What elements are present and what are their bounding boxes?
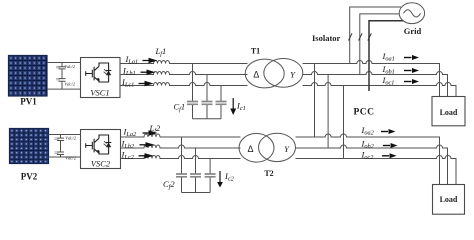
isolator switch blade c bbox=[368, 33, 372, 40]
svg-text:Ioa2: Ioa2 bbox=[361, 125, 375, 137]
svg-text:Ioa1: Ioa1 bbox=[382, 51, 395, 63]
wire phase c2 bbox=[296, 156, 457, 185]
wire DC link 1 top bbox=[47, 62, 81, 64]
label ILc1 bbox=[121, 77, 154, 89]
grid source bbox=[399, 3, 424, 24]
svg-text:Ioc1: Ioc1 bbox=[382, 75, 395, 87]
isolator switch blade b bbox=[359, 33, 363, 40]
wire phase c1 (VSC1 to T1) with inductor bbox=[120, 83, 248, 86]
cap value smudge upper2 bbox=[55, 138, 59, 139]
svg-text:Vdc/2: Vdc/2 bbox=[65, 136, 76, 141]
filter capacitor bank Cf1 bbox=[187, 64, 227, 119]
svg-text:ILa2: ILa2 bbox=[123, 127, 137, 139]
label ILb1 bbox=[122, 66, 156, 78]
svg-text:Lf1: Lf1 bbox=[155, 46, 167, 58]
converter VSC2 bbox=[81, 130, 121, 169]
transformer T1 bbox=[245, 59, 303, 88]
svg-text:PCC: PCC bbox=[354, 108, 375, 118]
cap value smudge upper1 bbox=[56, 67, 60, 68]
svg-text:Ic2: Ic2 bbox=[224, 171, 235, 183]
isolator riser phase a bbox=[350, 7, 402, 64]
svg-text:Load: Load bbox=[440, 108, 458, 117]
PCC bus phase b (vertical) bbox=[327, 75, 329, 149]
svg-text:VSC2: VSC2 bbox=[91, 158, 111, 168]
label ILa2 bbox=[123, 127, 158, 139]
cap value smudge lower2 bbox=[55, 152, 59, 153]
label ILb2 bbox=[121, 139, 155, 151]
svg-text:Vdc/2: Vdc/2 bbox=[65, 155, 76, 160]
label Ioc1 bbox=[382, 75, 420, 87]
svg-text:PV2: PV2 bbox=[21, 172, 38, 182]
label Iob1 bbox=[382, 64, 420, 76]
svg-text:ILc2: ILc2 bbox=[121, 150, 135, 162]
svg-text:ILa1: ILa1 bbox=[125, 54, 139, 66]
svg-text:T2: T2 bbox=[264, 169, 273, 178]
wire phase c1 bbox=[303, 83, 457, 97]
svg-text:PV1: PV1 bbox=[20, 97, 37, 107]
svg-text:Isolator: Isolator bbox=[312, 33, 341, 43]
cap value smudge lower1 bbox=[56, 79, 60, 80]
isolator riser phase c bbox=[369, 21, 404, 86]
PV array PV1 bbox=[9, 56, 48, 97]
svg-text:ILb1: ILb1 bbox=[122, 66, 136, 78]
label ILc2 bbox=[121, 150, 154, 162]
svg-text:Grid: Grid bbox=[404, 26, 422, 36]
svg-text:Iob1: Iob1 bbox=[382, 64, 395, 76]
PCC bus phase c (vertical) bbox=[343, 86, 345, 159]
svg-text:Cf1: Cf1 bbox=[174, 102, 186, 114]
current arrow Ic1 bbox=[230, 98, 236, 115]
svg-text:Δ: Δ bbox=[247, 144, 253, 154]
filter capacitor bank Cf2 bbox=[176, 137, 216, 193]
label ILa1 bbox=[125, 54, 158, 66]
capacitor Vdc/2 upper (DC link 2) bbox=[57, 135, 64, 153]
wire phase b1 (VSC1 to T1) with inductor bbox=[120, 72, 248, 75]
capacitor Vdc/2 lower (DC link 1) bbox=[59, 79, 66, 90]
svg-text:Vdc/2: Vdc/2 bbox=[64, 64, 75, 69]
svg-text:Lf2: Lf2 bbox=[149, 123, 161, 135]
isolator switch blade a bbox=[349, 33, 353, 40]
wire DC link 1 bottom bbox=[47, 88, 81, 90]
svg-text:Ioc2: Ioc2 bbox=[361, 150, 375, 162]
wire phase a2 (VSC2 to T2) with inductor bbox=[121, 134, 241, 137]
wire phase b1 bbox=[303, 72, 448, 97]
svg-text:Load: Load bbox=[440, 195, 458, 204]
wire phase c2 (VSC2 to T2) with inductor bbox=[121, 156, 241, 159]
junction stub below phase c1 bbox=[368, 86, 370, 92]
wire DC link 2 bottom bbox=[49, 156, 81, 158]
svg-text:VSC1: VSC1 bbox=[90, 87, 109, 97]
PV array PV2 bbox=[10, 129, 49, 164]
svg-text:ILb2: ILb2 bbox=[121, 139, 135, 151]
load box Load1 bbox=[432, 97, 465, 126]
load box Load2 bbox=[433, 185, 465, 215]
capacitor Vdc/2 lower (DC link 2) bbox=[57, 152, 64, 157]
svg-text:Cf2: Cf2 bbox=[163, 179, 175, 191]
label Iob2 bbox=[361, 138, 398, 150]
svg-text:Iob2: Iob2 bbox=[361, 138, 375, 150]
wire phase a2 (T2 to Load2) bbox=[296, 134, 440, 185]
svg-text:ILc1: ILc1 bbox=[121, 77, 134, 89]
svg-text:T1: T1 bbox=[251, 47, 260, 56]
capacitor Vdc/2 upper (DC link 1) bbox=[59, 63, 66, 79]
svg-text:Y: Y bbox=[290, 70, 296, 80]
wire phase b2 (VSC2 to T2) with inductor bbox=[121, 145, 241, 148]
wire phase a1 (VSC1 to T1) with inductor bbox=[120, 61, 248, 64]
converter VSC1 bbox=[81, 58, 121, 98]
svg-text:Y: Y bbox=[284, 144, 290, 154]
PCC bus phase a (vertical) bbox=[314, 64, 316, 138]
svg-text:Vdc/2: Vdc/2 bbox=[64, 82, 75, 87]
label Ioc2 bbox=[361, 150, 397, 162]
wire phase a1 (T1 to Load1 / PCC / isolator) bbox=[303, 61, 440, 97]
wire DC link 2 top bbox=[49, 134, 81, 136]
current arrow Ic2 bbox=[217, 171, 223, 188]
transformer T2 bbox=[239, 133, 296, 162]
svg-text:Δ: Δ bbox=[253, 70, 259, 80]
wire phase b2 bbox=[296, 145, 448, 185]
isolator riser phase b bbox=[360, 14, 400, 75]
label Ioa1 bbox=[382, 51, 420, 63]
label Ioa2 bbox=[361, 125, 396, 137]
svg-text:Ic1: Ic1 bbox=[236, 101, 246, 113]
